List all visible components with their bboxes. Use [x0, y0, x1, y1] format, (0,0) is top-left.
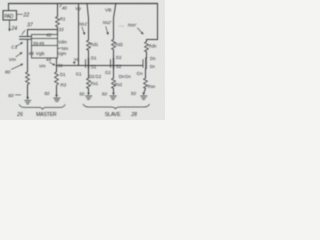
svg-text:28: 28: [130, 112, 137, 118]
wire gate bus 31 (master to slave gates): [57, 65, 143, 67]
svg-text:MASTER: MASTER: [36, 112, 57, 118]
svg-text:50: 50: [102, 92, 108, 97]
wire C1 drop: [27, 30, 29, 37]
wire Rs1 to ground: [88, 89, 90, 93]
wire top bus: [9, 3, 158, 5]
svg-text:Sn: Sn: [150, 64, 156, 69]
svg-text:40: 40: [62, 5, 68, 10]
svg-text:Rdn: Rdn: [149, 44, 157, 49]
resistor Rs1: [87, 78, 91, 89]
svg-text:Vgm: Vgm: [57, 51, 66, 56]
svg-text:Ns1': Ns1': [79, 22, 88, 27]
wire Qn source down: [145, 69, 147, 79]
wire 37 leader slash: [22, 30, 25, 34]
ground (60) under R2: [25, 97, 31, 104]
wire Rdn to Qn drain: [146, 52, 148, 58]
box comparator/counter/register (39 46 48 Vgb): [32, 35, 58, 59]
svg-text:R1: R1: [60, 16, 66, 21]
resistor Rsn: [144, 78, 148, 89]
resistor R2: [26, 72, 30, 85]
wire Rs2 to ground: [113, 89, 115, 93]
svg-text:Rs1: Rs1: [91, 81, 99, 86]
wire slave leg1 riser: [87, 4, 89, 41]
resistor Rs2: [112, 78, 116, 89]
svg-text:44: 44: [46, 57, 52, 62]
svg-text:Vgb: Vgb: [36, 51, 45, 57]
wire R3 to ground: [56, 87, 58, 95]
ground (50) slave leg2: [110, 93, 117, 100]
svg-text:Ns2': Ns2': [103, 20, 112, 25]
arrow 44 leader: [50, 62, 56, 65]
svg-text:Rd1: Rd1: [90, 42, 98, 47]
svg-text:Vs: Vs: [74, 57, 79, 62]
pad PAD box: [3, 11, 17, 20]
svg-text:C1: C1: [11, 45, 17, 51]
wire node 42 horizontal (pad node to R1 bottom): [28, 29, 58, 31]
svg-text:31: 31: [58, 63, 64, 68]
ground (50) slave leg n: [141, 93, 148, 100]
svg-text:G1: G1: [76, 71, 82, 76]
svg-text:Rs2: Rs2: [115, 82, 123, 87]
svg-text:Rd2: Rd2: [115, 42, 123, 47]
svg-text:VB: VB: [105, 8, 111, 14]
svg-text:S1: S1: [91, 65, 97, 70]
svg-text:Vm: Vm: [9, 57, 16, 63]
svg-text:Gn: Gn: [137, 71, 144, 76]
svg-text:SLAVE: SLAVE: [105, 112, 121, 118]
svg-text:Gn: Gn: [125, 74, 131, 79]
box divider 2: [32, 45, 58, 47]
svg-text:Vp: Vp: [75, 6, 81, 11]
svg-text:R3: R3: [60, 83, 66, 88]
wire R2 to ground: [27, 85, 29, 97]
svg-text:G2: G2: [95, 74, 101, 79]
svg-text:42: 42: [46, 32, 52, 37]
wire 40 tick: [60, 4, 62, 7]
svg-text:Nsn': Nsn': [128, 23, 137, 28]
wire slave leg2 riser: [114, 4, 116, 40]
brace SLAVE: [83, 104, 149, 109]
wire Rd2 to Q2 drain: [113, 50, 115, 58]
wire Rd1 to Q1 drain: [88, 50, 90, 58]
wire Q2 source down: [113, 69, 115, 79]
arrow Vm leader: [16, 52, 23, 57]
arrow Nsn': [138, 28, 144, 35]
svg-text:50: 50: [79, 92, 85, 97]
svg-text:60: 60: [8, 93, 14, 99]
wire PAD riser: [8, 4, 10, 11]
wire R1 to node 42 / box: [57, 27, 59, 35]
resistor R3: [55, 72, 59, 87]
wire box output down to node 44 and R3: [56, 58, 58, 72]
resistor Rd2: [112, 39, 116, 49]
resistor Rd1: [87, 40, 91, 50]
svg-text:50: 50: [131, 91, 137, 96]
wire C1 to R2: [27, 40, 29, 72]
svg-text:26: 26: [16, 112, 23, 118]
wire 60 dash: [15, 94, 20, 96]
svg-text:24: 24: [10, 26, 17, 32]
svg-text:D1: D1: [60, 72, 66, 77]
ground (50) slave leg1: [85, 93, 92, 100]
svg-text:Rsn: Rsn: [148, 84, 156, 89]
svg-text:Dn: Dn: [150, 56, 156, 61]
svg-text:50: 50: [44, 91, 50, 96]
svg-text:PAD: PAD: [4, 14, 14, 20]
svg-text:80: 80: [5, 70, 11, 76]
box divider 1: [32, 38, 58, 40]
svg-text:39: 39: [33, 41, 39, 47]
wire R1 riser from bus: [57, 4, 59, 17]
transistor Q1 (slave 1): [86, 58, 89, 69]
arrow Ns2': [106, 27, 109, 36]
wire leader to 22: [17, 13, 23, 15]
resistor Rdn: [145, 42, 149, 52]
svg-text:33: 33: [59, 27, 65, 32]
resistor R1: [56, 16, 60, 27]
svg-text:S2: S2: [116, 64, 122, 69]
svg-text:Vm: Vm: [39, 63, 46, 68]
wire 22 arrowless leader already; Nm dash: [58, 47, 61, 50]
svg-text:22: 22: [23, 12, 30, 18]
brace MASTER: [19, 105, 65, 110]
ground (50) under R3: [54, 95, 61, 102]
node arrow 24 (signal into pad): [8, 21, 11, 32]
arrow C1 leader: [16, 42, 23, 46]
arrow Vs down onto bus: [73, 62, 76, 64]
svg-text:D1: D1: [91, 55, 97, 60]
node 44 junction dot: [56, 65, 58, 67]
capacitor C1: [20, 37, 31, 40]
wire VB riser: [78, 4, 80, 66]
svg-text:46: 46: [39, 41, 45, 47]
arrow 80 leader: [12, 64, 24, 70]
svg-text:48: 48: [28, 51, 34, 57]
arrow Ns1': [82, 27, 86, 35]
wire right edge drop to Rdn: [147, 4, 158, 42]
svg-text:D2: D2: [89, 74, 95, 79]
svg-text:G2: G2: [105, 70, 111, 75]
transistor Q2 (slave 2): [111, 58, 114, 69]
svg-text:Vdm: Vdm: [58, 39, 67, 44]
wire Rsn to ground: [144, 89, 146, 93]
svg-text:D2: D2: [116, 55, 122, 60]
wire Q1 source down: [88, 69, 90, 79]
svg-text:...: ...: [119, 23, 124, 29]
transistor Qn (slave n): [143, 58, 146, 69]
